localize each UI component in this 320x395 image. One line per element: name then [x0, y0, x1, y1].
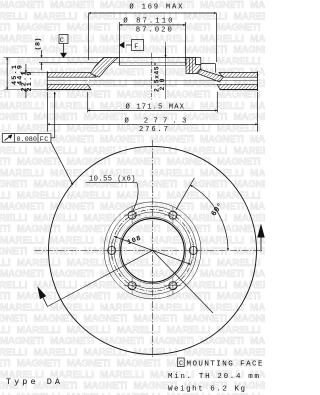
datum C frame box: [59, 35, 68, 44]
svg-text:2.0: 2.0: [159, 78, 166, 90]
left hat wall hatched: [91, 58, 119, 78]
dim Ø169 line with arrows: [89, 12, 217, 14]
hat column inner edge lines: [188, 58, 190, 74]
bolt holes: [108, 207, 198, 294]
60 deg arc: [190, 185, 228, 250]
diagonal to lower right: [153, 250, 214, 313]
outer circle: [49, 146, 257, 354]
left band bottom plate hatched: [47, 84, 91, 89]
right band bottom plate hatched: [217, 84, 257, 89]
dim Ø171.5: ext lines: [87, 92, 89, 113]
10.55 leader: [86, 182, 137, 184]
dim Ø277.3: ext lines: [47, 92, 49, 132]
vane line left: [47, 79, 87, 81]
dim Ø169: extension lines: [88, 13, 90, 60]
svg-text:(8): (8): [35, 38, 43, 51]
runout tolerance box: [2, 134, 51, 143]
note C frame box: [178, 358, 185, 367]
dim 22.1/21.9 outside arrows: [25, 64, 27, 73]
centerlines: [152, 140, 154, 358]
hat top face line (datum C mounting face) with left extension: [4, 57, 104, 59]
svg-text:0.080: 0.080: [17, 136, 38, 144]
hub circles: [104, 202, 201, 299]
bolt hole 3 (120 deg) with crosshair: [124, 207, 141, 224]
svg-text:Min. TH 20.4 mm: Min. TH 20.4 mm: [168, 373, 259, 381]
right hat wall diagonal hatched: [198, 70, 224, 83]
dim Ø87 line (limit fraction bar): [120, 24, 186, 26]
bore edge lines (datum F surface): [119, 22, 121, 66]
svg-text:21.9: 21.9: [26, 72, 34, 92]
bolt hole 6 (300 deg) with crosshair: [165, 277, 182, 294]
svg-text:MOUNTING FACE: MOUNTING FACE: [187, 361, 263, 369]
section axis dash line: [151, 53, 153, 100]
see-through lines middle: [89, 80, 216, 82]
band bottom line right: [220, 89, 258, 91]
datum boxes: [59, 35, 184, 367]
108 dimension diagonal: [114, 236, 191, 264]
bolt circle dash-dot: [112, 210, 194, 292]
left band top plate hatched: [47, 73, 96, 78]
svg-text:Ø 169 MAX: Ø 169 MAX: [129, 3, 183, 12]
datum C leader + triangle: [63, 44, 65, 54]
rotation arrow left: [48, 250, 153, 306]
leader from tol box to front view: [51, 142, 73, 185]
rotation arrow right: [260, 237, 262, 251]
dim (8): [41, 50, 43, 58]
dim 22.1/21.9 ext line: [21, 72, 47, 74]
bolt hole 2 (60 deg) with crosshair: [165, 207, 182, 224]
right hat column hatched: [186, 58, 201, 74]
svg-text:C: C: [179, 360, 183, 367]
vane line right: [217, 79, 257, 81]
chamfer dim vertical line: [165, 42, 167, 99]
step face line (8) with left extension: [39, 62, 109, 64]
bolt hole 5 (240 deg) with crosshair: [124, 277, 141, 294]
band bottom line left + extension to left: [4, 89, 48, 91]
hat outer right vertical: [215, 64, 217, 73]
svg-text:Ø 171.5 MAX: Ø 171.5 MAX: [126, 103, 185, 112]
svg-text:FC: FC: [40, 136, 49, 144]
datum F frame box: [132, 40, 144, 51]
dim 45.1/44.9: [6, 58, 8, 90]
datum F leader + triangle: [126, 44, 132, 46]
60 deg radial extension: [176, 178, 195, 210]
leader from tol box up to surface: [51, 92, 55, 138]
svg-text:10.55 (x6): 10.55 (x6): [89, 176, 136, 184]
step face right: [196, 63, 216, 65]
right band top plate hatched: [219, 73, 258, 78]
outer edges: [46, 71, 48, 91]
step right vertical: [195, 58, 197, 64]
bolt hole 1 (0 deg) with crosshair: [189, 242, 197, 259]
bolt hole 4 (180 deg) with crosshair: [108, 242, 116, 259]
hat step notch: [196, 58, 201, 65]
svg-text:F: F: [134, 43, 138, 51]
